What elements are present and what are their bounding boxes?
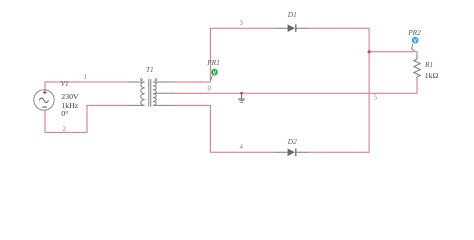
label D2 [287,137,297,146]
node label 1 [84,74,87,81]
svg-text:PR1: PR1 [206,58,220,67]
node label 0 [208,86,212,93]
svg-text:4: 4 [240,144,244,151]
node label 3 [240,20,244,27]
svg-text:1: 1 [84,74,87,81]
svg-text:0°: 0° [61,109,68,118]
primary phase dot [141,79,143,81]
svg-text:D2: D2 [287,137,297,146]
value 230V [61,92,79,101]
node label 4 [240,144,244,151]
svg-text:1kΩ: 1kΩ [425,71,439,80]
junction dot node 5 [368,50,371,53]
label V1 [61,79,69,88]
value 1kHz [61,101,78,110]
svg-text:V1: V1 [61,79,69,88]
svg-text:D1: D1 [287,10,297,19]
node label 2 [63,126,67,133]
node label 5 [374,94,378,101]
label D1 [287,10,297,19]
secondary phase dot [155,79,157,81]
junction dot ground [240,92,243,95]
probe PR2 [412,37,419,51]
secondary lead top [153,81,175,83]
wire node 5 tap (junction to R1 top) [369,52,417,55]
secondary lead center tap [155,92,175,94]
svg-text:T1: T1 [146,65,154,74]
svg-text:V: V [213,70,217,76]
probe PR1 [211,69,218,80]
wire node 4 (T1 secondary bottom, down and right to D2 anode) [175,105,275,152]
wire node 2 (V1 bottom to T1 primary bottom) [45,105,129,132]
value 1kOhm [425,71,439,80]
svg-text:2: 2 [63,126,67,133]
svg-text:3: 3 [240,20,244,27]
resistor R1 [414,55,420,79]
svg-text:V: V [413,38,417,44]
svg-text:0: 0 [208,86,212,93]
svg-text:PR2: PR2 [407,28,421,37]
label PR1 [206,58,220,67]
primary coil [141,82,145,105]
wire node 0 (T1 center tap to R1 bottom) [175,79,417,93]
diode D2 [275,149,309,157]
secondary coil [153,82,156,105]
wire node 1 (V1 top to T1 primary top) [45,82,129,90]
primary lead bottom [129,104,145,106]
transformer T1 [129,79,175,107]
svg-text:5: 5 [374,94,378,101]
label PR2 [407,28,421,37]
primary lead top [129,81,145,83]
value 0deg [61,109,68,118]
label R1 [424,60,433,69]
diode D1 [275,24,309,32]
secondary lead bottom [153,104,175,106]
wire node 3 (T1 secondary top, up and right to D1 anode) [175,28,275,82]
ground [238,93,245,102]
AC source V1 [34,90,54,110]
wire node 5 (D1 cathode, right vertical, down to D2 cathode) [308,28,369,152]
core lines [149,79,151,107]
svg-text:R1: R1 [424,60,433,69]
label T1 [146,65,154,74]
